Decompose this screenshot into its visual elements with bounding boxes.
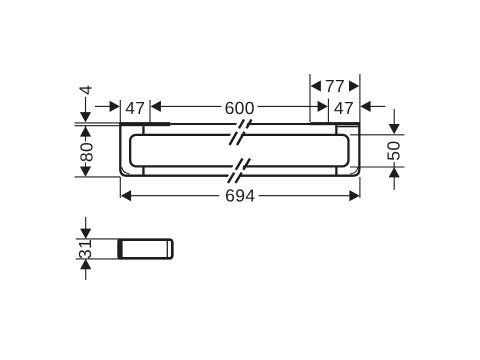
extension line rail bottom left: [75, 125, 120, 127]
break mark lower slash 1 upper dash: [236, 159, 243, 170]
dimension line 47 left tail: [95, 105, 110, 107]
dimension line 31 lower vertical: [85, 269, 87, 280]
front view outer outline: [120, 122, 359, 176]
svg-text:50: 50: [384, 141, 404, 161]
dimension line 50 lower vertical: [393, 162, 395, 190]
side view wall plate filled band: [117, 238, 122, 259]
extension line 77 left: [309, 74, 311, 122]
break mark lower slash 2 upper dash: [243, 159, 250, 170]
arrow 31 bottom pointing up: [80, 259, 91, 269]
arrow 600 right pointing right: [318, 101, 328, 112]
right mounting post lower: [335, 167, 337, 176]
arrow 80 top pointing up: [80, 126, 91, 136]
dimension line 47 right tail: [370, 105, 385, 107]
left mounting post lower: [142, 167, 144, 176]
front view inner outline: [130, 135, 348, 167]
extension line 31 bottom: [76, 258, 119, 260]
dimension line 694 left segment: [131, 195, 220, 197]
dimension line 80 lower vertical: [85, 163, 87, 169]
wall rail left thick band: [119, 122, 170, 126]
svg-text:31: 31: [75, 239, 95, 259]
front view inner corner arc bottom-right: [350, 167, 358, 174]
break gap white-out lower: [224, 156, 247, 185]
svg-text:47: 47: [125, 98, 145, 118]
extension line bar bottom left: [75, 176, 121, 178]
right cap top edge line: [337, 126, 358, 128]
break mark upper slash 1 upper dash: [239, 120, 244, 129]
arrow 50 bottom pointing up: [389, 167, 400, 177]
dimension line 31 upper vertical: [85, 217, 87, 229]
left mounting post upper: [142, 126, 144, 134]
arrow 694 right pointing right: [349, 190, 359, 201]
extension line right bar end (bottom): [359, 177, 361, 198]
arrow 77 pointing left: [311, 80, 321, 91]
svg-text:77: 77: [325, 76, 345, 96]
arrow 600 left pointing left: [151, 101, 161, 112]
break mark upper slash 1 lower dash: [230, 132, 238, 145]
dimension line 80 upper vertical: [85, 126, 87, 142]
wall rail right thick band: [311, 122, 361, 125]
extension line left bar end (top): [119, 100, 121, 122]
dimension line 50 upper vertical: [393, 109, 395, 125]
dimension line 694 right segment: [259, 195, 350, 197]
arrow 50 top pointing down: [389, 124, 400, 134]
svg-text:600: 600: [225, 98, 255, 118]
side view outer outline: [119, 240, 173, 259]
arrow 80 bottom pointing down: [80, 167, 91, 177]
dimension line 600 left segment: [161, 105, 222, 107]
extension line rail top left: [75, 122, 120, 124]
break mark lower slash 2 lower dash: [236, 173, 242, 183]
arrow 47 left pointing right: [110, 101, 120, 112]
arrow 47 right pointing left: [360, 101, 370, 112]
arrow 77 pointing right: [349, 80, 359, 91]
dimension line 600 right segment: [258, 105, 319, 107]
svg-text:47: 47: [334, 98, 354, 118]
break mark lower slash 1 lower dash: [228, 173, 234, 183]
front view inner corner arc bottom-left: [122, 167, 130, 174]
svg-text:4: 4: [76, 85, 96, 95]
svg-text:694: 694: [225, 185, 255, 205]
extension line right bar end (top): [359, 74, 361, 122]
extension line 50 bottom: [350, 166, 405, 168]
wall rail middle thin line: [170, 123, 310, 125]
extension line 600-47 boundary: [327, 99, 329, 123]
arrow 694 left pointing left: [121, 190, 131, 201]
extension line 50 top: [350, 134, 405, 136]
extension line 31 top: [76, 238, 119, 240]
break mark upper slash 2 lower dash: [237, 132, 245, 145]
break mark upper slash 2 upper dash: [247, 120, 252, 129]
break gap white-out upper: [225, 118, 251, 147]
svg-text:80: 80: [76, 142, 96, 162]
extension line 47-600 boundary: [149, 100, 151, 122]
side view inner line: [166, 241, 168, 257]
arrow 31 top pointing down: [80, 229, 91, 239]
extension line left bar end (bottom): [119, 177, 121, 198]
dimension line 4 vertical: [85, 97, 87, 113]
arrow 4 pointing down: [80, 112, 91, 122]
right mounting post upper: [335, 125, 337, 134]
